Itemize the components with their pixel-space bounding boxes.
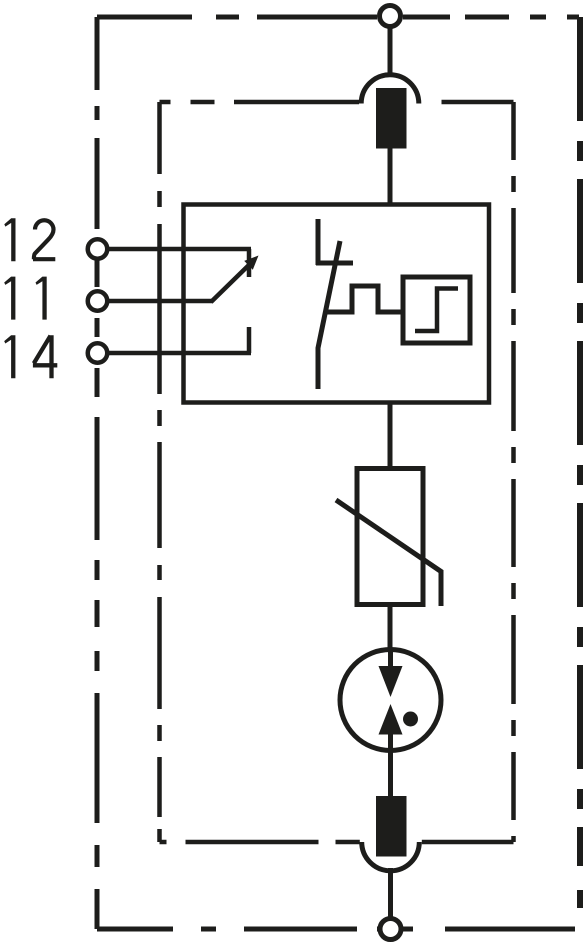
wire terminal 11 bbox=[107, 299, 213, 304]
inner border bottom-left segment bbox=[160, 840, 360, 845]
wire from top terminal to top plug contact bbox=[388, 27, 393, 75]
wire bottom contact to bottom terminal bbox=[388, 868, 393, 919]
thermal disconnector lead bbox=[316, 219, 321, 265]
inner border right edge bbox=[511, 102, 516, 842]
varistor diagonal bbox=[336, 500, 441, 606]
top terminal circle bbox=[380, 6, 401, 27]
wire terminal 12 bbox=[107, 247, 251, 252]
fixed contact stub 12 bbox=[247, 249, 252, 277]
top plug-in contact blade (filled) bbox=[376, 88, 407, 149]
top plug-in contact arc bbox=[361, 75, 419, 104]
thermal disconnector blade bbox=[318, 241, 340, 389]
bottom plug-in contact blade (filled) bbox=[376, 796, 407, 857]
wire from top contact into signalling box bbox=[388, 149, 393, 206]
spark gap lower arrow shaft / wire to bottom contact bbox=[388, 733, 393, 797]
changeover contact blade bbox=[211, 262, 252, 302]
terminal label 12 bbox=[4, 218, 55, 261]
terminal label 14 bbox=[4, 335, 57, 378]
inner border top-right segment bbox=[422, 100, 514, 105]
fixed contact stub 14 bbox=[247, 327, 252, 353]
terminal label 11 bbox=[4, 277, 47, 320]
blade arrowhead bbox=[244, 256, 258, 270]
signalling contact box outline bbox=[184, 205, 490, 403]
outer enclosure border (dash-dot) bbox=[97, 17, 580, 929]
step glyph bbox=[415, 289, 458, 332]
spark gap dot bbox=[403, 712, 418, 727]
spark gap lower arrow bbox=[379, 704, 403, 735]
mechanical link squiggle bbox=[325, 286, 403, 312]
wire signalling box to varistor bbox=[388, 403, 393, 468]
status indicator box bbox=[403, 277, 470, 343]
inner border left edge bbox=[157, 102, 162, 842]
bottom plug-in contact arc bbox=[362, 842, 420, 871]
inner border top-left segment bbox=[160, 100, 360, 105]
wire terminal 14 bbox=[107, 351, 251, 356]
terminal circle 14 bbox=[88, 343, 108, 363]
terminal circle 11 bbox=[88, 291, 108, 311]
bottom terminal circle bbox=[380, 919, 401, 940]
terminal circle 12 bbox=[88, 239, 108, 259]
varistor body bbox=[357, 469, 423, 605]
spark gap circle bbox=[340, 650, 441, 751]
inner border bottom-right segment bbox=[422, 840, 514, 845]
thermal disconnector bar bbox=[316, 261, 353, 266]
spark gap upper arrow bbox=[379, 666, 403, 697]
wire varistor to spark gap bbox=[388, 605, 393, 653]
inner module border (dash-dot) bbox=[160, 102, 514, 842]
spark gap upper arrow shaft bbox=[388, 648, 393, 670]
